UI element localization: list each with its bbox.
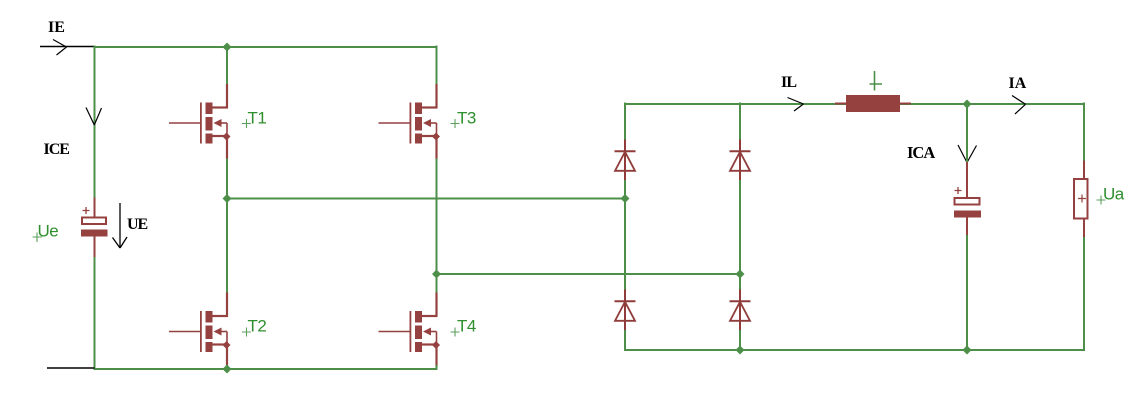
wire: diode bridge top rail to output [624,103,1085,105]
label T1 [242,108,266,128]
inductor L [835,95,911,112]
label T2 [242,317,266,337]
wire: diode column 2 lower [739,330,741,350]
label T3 [451,108,476,128]
label Ue [33,222,59,243]
junction: diode column 2 into bottom rail [736,346,745,355]
svg-text:IE: IE [48,19,65,36]
transistor T4 (N-MOSFET) [379,293,441,368]
arrow UE (down) [113,203,128,248]
svg-text:ICE: ICE [44,141,70,158]
junction: output node / filter cap [963,100,972,109]
svg-text:IL: IL [781,74,796,91]
wire: node A down to T2 drain [226,199,228,293]
junction: wire2 into diode column 2 [736,270,745,279]
junction: wire1 into diode column 1 [621,194,630,203]
wire: left vertical (input +) upper segment [94,46,96,199]
label Ua [1097,185,1125,205]
wire: filter cap column upper [966,103,968,163]
junction: top rail / T1 drain [223,43,232,52]
label T4 [451,317,476,337]
wire: diode column 2 middle [739,180,741,290]
wire: load column upper [1083,103,1085,162]
wire: diode column 1 upper [624,103,626,141]
transistor T3 (N-MOSFET) [379,84,441,159]
wire: T3 source to node B [436,159,438,293]
arrow IE [53,40,67,56]
wire: IE input line (black) [40,46,95,48]
svg-text:UE: UE [127,216,148,233]
junction: bottom rail / T2 source [223,365,232,374]
svg-text:T4: T4 [457,317,476,336]
capacitor CA (polarized, filter) [954,162,981,235]
junction: node A (T1-T2 midpoint) [223,194,232,203]
svg-text:T1: T1 [248,108,267,127]
transistor T1 (N-MOSFET) [169,84,231,159]
svg-text:Ue: Ue [38,222,59,241]
svg-text:T2: T2 [248,317,267,336]
junction: node B (T3-T4 midpoint) [432,270,441,279]
junction: filter cap into bottom rail [963,346,972,355]
diode D1 [615,140,636,182]
wire: bottom rail of H-bridge [94,368,438,370]
wire: top rail of H-bridge [94,46,438,48]
wire: T3 drain from top rail [436,46,438,85]
transistor T2 (N-MOSFET) [169,293,231,368]
wire: node A horizontal to diode bridge [227,198,625,200]
wire: load column lower [1083,237,1085,351]
wire: left vertical lower segment [94,257,96,370]
diode D2 [730,140,751,182]
svg-text:IA: IA [1009,75,1027,92]
diode D4 [730,290,751,332]
svg-text:ICA: ICA [907,143,935,162]
wire: T4 source to bottom rail [436,365,438,370]
label L (green mark with origin cross) [870,71,883,91]
diode D3 [615,290,636,332]
wire: diode bridge bottom rail [624,349,1085,351]
wire: filter cap column lower [966,235,968,350]
arrow ICA (down, on cap wire) [958,145,977,163]
arrow IA (right) [1012,96,1026,115]
wire: diode column 1 middle [624,180,626,290]
resistor Ua (load) [1074,161,1088,238]
wire: diode column 2 upper [739,103,741,141]
arrow IL (right) [788,98,804,112]
svg-text:Ua: Ua [1103,185,1125,204]
svg-text:T3: T3 [457,108,476,127]
wire: T2 source to bottom rail [226,365,228,369]
arrow ICE (down, on left wire) [86,108,102,126]
wire: T1 drain from top rail [226,46,228,85]
capacitor Ue (polarized, left source) [81,198,108,258]
wire: diode column 1 lower [624,330,626,351]
wire: bottom-left black stub [47,367,95,369]
wire: node B horizontal to diode bridge [437,273,741,275]
wire: T1 source to node A [226,159,228,199]
